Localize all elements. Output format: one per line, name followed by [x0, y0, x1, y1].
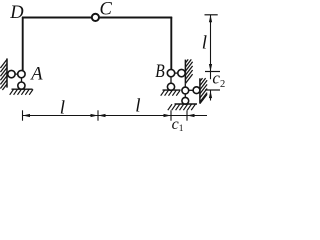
- roller against upper right wall: [178, 69, 185, 76]
- lower right wall edge: [199, 78, 201, 103]
- roller Q1: [182, 87, 189, 94]
- svg-text:D: D: [9, 3, 24, 23]
- lower right wall hatching: [200, 78, 207, 104]
- upper right wall edge: [184, 60, 186, 84]
- svg-text:l: l: [202, 33, 207, 54]
- roller against left wall at A: [8, 70, 15, 77]
- lower ground line under Q3: [175, 103, 198, 105]
- arrow right end first l: [91, 114, 99, 117]
- bottom tick of c2: [205, 89, 220, 91]
- roller Q2 against lower right wall: [193, 87, 200, 94]
- ground roller at A: [18, 82, 25, 89]
- wire: left column D-A: [22, 17, 24, 71]
- svg-text:C: C: [100, 0, 113, 19]
- ground line under A: [12, 88, 33, 90]
- top tick of right dimension: [205, 14, 218, 16]
- roller Q3 on lower ground: [182, 97, 189, 104]
- middle tick (bottom of l / top of c2): [205, 71, 220, 73]
- node B: link pin down to lower roller: [170, 73, 172, 87]
- link Q1 to Q2: [185, 89, 196, 91]
- upper right wall hatching: [185, 59, 192, 83]
- wire: right column corner-B: [170, 17, 172, 70]
- short stub of dimension line below c2 top tick: [210, 72, 212, 80]
- link Q1 down to Q3: [184, 91, 186, 101]
- tail below c2 arrow: [210, 90, 212, 101]
- arrow left end second l: [98, 114, 106, 117]
- lower ground hatching: [168, 104, 196, 110]
- node A: link pin down to ground roller: [21, 74, 23, 86]
- wire: top beam D-C-B corner: [22, 17, 172, 19]
- dimension tick c1 right: [186, 110, 188, 120]
- left wall hatching: [0, 59, 7, 90]
- dimension tick at A: [22, 110, 24, 120]
- left wall edge: [6, 58, 8, 87]
- ground hatching under A: [10, 89, 33, 94]
- ground line under roller below B: [163, 89, 181, 91]
- svg-text:A: A: [29, 65, 43, 85]
- arrow left end bottom l: [23, 114, 31, 117]
- arrow down at bottom of right l: [209, 64, 212, 72]
- node A: link pin to wall roller: [9, 73, 22, 75]
- pin A: [18, 70, 25, 77]
- svg-text:c2: c2: [212, 69, 225, 90]
- link from wall bottom corner down to roller Q1: [184, 84, 186, 91]
- roller below pin B: [167, 83, 174, 90]
- arrow right end second l: [164, 114, 172, 117]
- svg-text:B: B: [155, 62, 165, 82]
- right dimension line l vertical: [210, 15, 212, 72]
- node B: link pin to wall roller: [171, 72, 182, 74]
- dimension line bottom: [23, 115, 208, 117]
- arrow up at top of right l: [209, 15, 212, 22]
- pin B: [167, 69, 174, 76]
- svg-text:c1: c1: [172, 116, 184, 134]
- dimension tick middle: [97, 110, 99, 120]
- arrow outside right of c1: [187, 114, 195, 117]
- ground hatching under roller below B: [161, 90, 180, 95]
- hinge C: [92, 14, 99, 21]
- dimension tick at B: [170, 110, 172, 120]
- svg-text:l: l: [60, 97, 65, 118]
- svg-text:l: l: [135, 96, 140, 117]
- arrow up below c2 bottom tick: [209, 91, 212, 99]
